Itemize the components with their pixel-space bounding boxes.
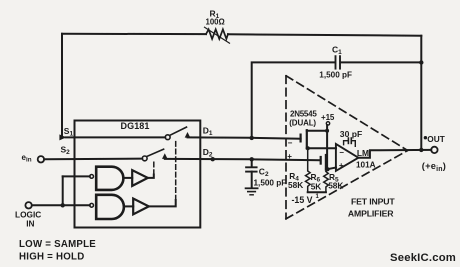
wire op-amp output step	[358, 150, 431, 158]
svg-text:5K: 5K	[311, 181, 322, 191]
terminal +15 supply	[326, 122, 329, 125]
node D2 pin dot	[211, 157, 215, 161]
svg-text:HIGH = HOLD: HIGH = HOLD	[19, 251, 84, 262]
label D2	[203, 147, 213, 159]
node e_out bullet	[424, 136, 427, 139]
label R1	[206, 8, 225, 26]
svg-text:LM: LM	[357, 148, 369, 158]
wire -15 rail	[308, 191, 326, 193]
node R4 junction dot	[306, 146, 310, 150]
dashed control line to SW1	[175, 140, 177, 200]
resistor R5	[324, 169, 329, 192]
svg-text:+: +	[287, 152, 292, 161]
svg-text:FET INPUT: FET INPUT	[351, 197, 395, 207]
gate G1 input bubble	[90, 175, 94, 179]
wire C2 branch down	[251, 159, 253, 167]
svg-text:58K: 58K	[288, 180, 303, 190]
label C1	[319, 44, 352, 79]
switch SW2 contact arrow	[162, 153, 168, 159]
capacitor C1	[335, 56, 337, 68]
svg-text:1,500 pF: 1,500 pF	[254, 179, 287, 188]
svg-text:OUT: OUT	[427, 134, 445, 144]
switch SW2 lever	[147, 149, 164, 156]
switch SW2 pivot circle	[142, 156, 147, 161]
gate G2 input bubble	[90, 203, 94, 207]
svg-text:IN: IN	[26, 218, 34, 228]
node output junction	[419, 148, 423, 152]
wire S2 from e_in to switch	[44, 158, 142, 161]
switch SW1 contact arrow	[185, 132, 191, 138]
svg-text:101A: 101A	[356, 160, 376, 169]
svg-text:AMPLIFIER: AMPLIFIER	[348, 209, 394, 219]
label S2	[61, 145, 71, 157]
op-amp U1 LM101A	[336, 144, 359, 171]
wire D1 from switch to FET gate	[188, 137, 301, 138]
wire +15 rail down to Q2 drain	[326, 125, 328, 170]
wire left vertical from top rail to S1	[61, 34, 63, 135]
wire Q2 source to op-amp + input	[326, 168, 336, 170]
ground	[246, 187, 258, 189]
arrowhead into S1	[59, 134, 66, 140]
label S1	[64, 126, 74, 138]
terminal LOGIC IN	[25, 202, 31, 208]
svg-text:SeekIC.com: SeekIC.com	[390, 252, 456, 264]
capacitor 30 pF comp loop	[344, 141, 348, 145]
label 2N5545 (DUAL) +15	[289, 110, 335, 128]
node logic bus junction	[61, 203, 65, 207]
label FET INPUT AMPLIFIER	[348, 197, 395, 219]
label DG181	[121, 121, 150, 131]
wire G1 to buffer B1	[124, 177, 132, 179]
svg-text:+: +	[339, 161, 344, 170]
wire B1 output	[148, 175, 154, 178]
svg-text:100Ω: 100Ω	[206, 18, 225, 27]
svg-text:-15 V: -15 V	[292, 195, 313, 205]
FET amplifier dashed triangle	[286, 76, 408, 219]
svg-text:2N5545: 2N5545	[290, 110, 317, 119]
wire S1 into switch	[66, 136, 166, 138]
node drain junction dot	[325, 129, 329, 133]
label 30 pF	[340, 129, 362, 139]
wire C1 branch vertical	[252, 62, 335, 137]
DG181 box	[75, 121, 201, 228]
label -15 V	[292, 194, 320, 205]
resistor R1	[206, 29, 228, 39]
label LOW = SAMPLE / HIGH = HOLD	[19, 239, 96, 262]
svg-text:DG181: DG181	[121, 121, 150, 131]
terminal e_in	[38, 156, 44, 162]
wire G2 to buffer B2	[124, 205, 133, 207]
node D1 junction dot	[250, 136, 254, 140]
transistor Q1 (2N5545 a) channel	[306, 130, 308, 148]
transistor Q2 (2N5545 b) gate bar	[320, 157, 322, 164]
wire C2 to ground	[251, 172, 253, 188]
dashed control line to SW2	[153, 160, 155, 175]
node minus input mark	[288, 139, 293, 148]
label R5 58K	[328, 172, 343, 190]
svg-text:−: −	[288, 139, 293, 148]
gate G1 (driver)	[96, 167, 123, 190]
transistor Q1 gate bar	[300, 135, 302, 142]
terminal e_out	[431, 147, 437, 153]
svg-text:1,500 pF: 1,500 pF	[319, 70, 352, 79]
gate G2 (driver)	[96, 195, 124, 219]
label R6 5K	[311, 172, 322, 192]
node R5 junction dot	[326, 167, 330, 171]
wire C1 to output node	[341, 61, 422, 63]
node plus input mark	[287, 152, 292, 161]
wire to Q1 drain	[307, 130, 327, 132]
wire to gate G1 input	[63, 175, 90, 177]
node C2 junction dot	[250, 157, 254, 161]
svg-text:58K: 58K	[328, 181, 343, 191]
svg-text:LOW = SAMPLE: LOW = SAMPLE	[19, 239, 96, 250]
wire B2 output	[149, 200, 176, 206]
switch SW1 pivot circle	[165, 135, 170, 140]
switch SW1 lever	[170, 127, 187, 135]
buffer B1	[132, 170, 148, 186]
wire D2 from switch to amplifier + input	[165, 159, 320, 160]
svg-text:(DUAL): (DUAL)	[289, 119, 316, 128]
svg-text:+15: +15	[321, 113, 335, 122]
buffer B2	[133, 199, 149, 215]
wire LOGIC IN to gate G2	[32, 204, 90, 206]
wire right vertical rail	[420, 36, 422, 150]
label R4 58K	[288, 171, 303, 190]
resistor R4	[306, 148, 311, 192]
label D1	[203, 126, 213, 138]
node C1/output rail junction	[419, 60, 423, 64]
label C2	[254, 167, 287, 188]
wire top rail right segment	[228, 34, 421, 35]
svg-text:30 pF: 30 pF	[340, 129, 362, 139]
wire Q1 source to op-amp - input	[307, 147, 336, 149]
wire top feedback rail	[62, 33, 206, 35]
capacitor C2	[246, 166, 257, 168]
watermark SeekIC.com	[390, 252, 456, 264]
svg-text:−: −	[339, 148, 344, 157]
transistor Q2 channel	[325, 155, 327, 170]
logic input bus vertical	[62, 176, 64, 205]
label LM 101A	[356, 148, 376, 169]
